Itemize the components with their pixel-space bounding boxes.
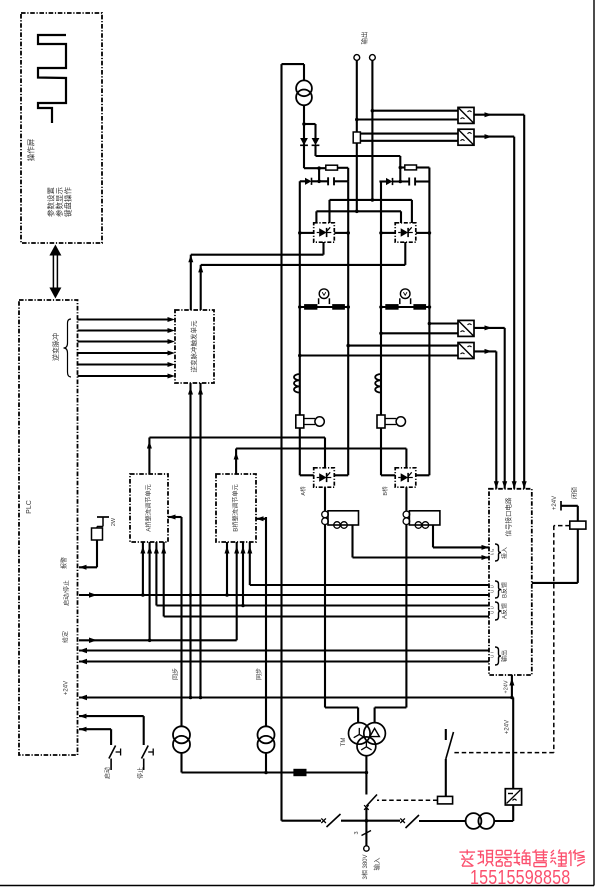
svg-text:逆变脉冲: 逆变脉冲 [51,333,60,361]
svg-text:逆变脉冲触发单元: 逆变脉冲触发单元 [189,320,198,373]
svg-text:输入: 输入 [372,857,381,871]
svg-text:+24V: +24V [505,720,511,734]
svg-text:操作屏: 操作屏 [25,138,35,161]
svg-text:+24V: +24V [552,496,558,510]
svg-text:B桥整流调节单元: B桥整流调节单元 [232,484,240,531]
svg-text:同步: 同步 [255,668,263,680]
svg-text:+24V: +24V [64,681,70,695]
svg-text:参数显示: 参数显示 [54,187,64,217]
svg-text:参数设置: 参数设置 [45,187,55,217]
svg-text:B桥: B桥 [381,486,389,496]
svg-text:U U: U U [490,585,495,593]
svg-text:输出: 输出 [501,650,509,662]
svg-text:B反馈: B反馈 [501,582,509,598]
svg-text:TM: TM [341,738,347,747]
svg-text:3相 380V: 3相 380V [361,854,369,879]
svg-text:停止: 停止 [137,767,145,779]
svg-text:A桥: A桥 [299,486,307,496]
svg-text:U U: U U [490,606,495,614]
svg-text:信号接口电路: 信号接口电路 [504,497,513,537]
svg-text:PLC: PLC [26,500,33,514]
svg-text:3: 3 [354,831,360,834]
svg-text:同步: 同步 [172,668,180,680]
svg-text:启动: 启动 [104,767,112,779]
svg-text:+24V: +24V [503,680,509,693]
svg-text:报警: 报警 [60,557,68,569]
svg-text:A反馈: A反馈 [501,603,509,619]
svg-text:键盘操作: 键盘操作 [62,187,72,217]
svg-text:Iᵢ Iₐ: Iᵢ Iₐ [490,549,495,555]
svg-text:闭锁: 闭锁 [571,487,579,499]
svg-text:U I: U I [490,652,495,658]
svg-text:输出: 输出 [360,32,369,45]
svg-text:A桥整流调节单元: A桥整流调节单元 [145,484,153,531]
svg-text:给定: 给定 [62,631,70,643]
svg-text:启动/停止: 启动/停止 [63,580,71,606]
svg-text:接入: 接入 [501,547,509,559]
svg-text:2W: 2W [111,517,117,526]
